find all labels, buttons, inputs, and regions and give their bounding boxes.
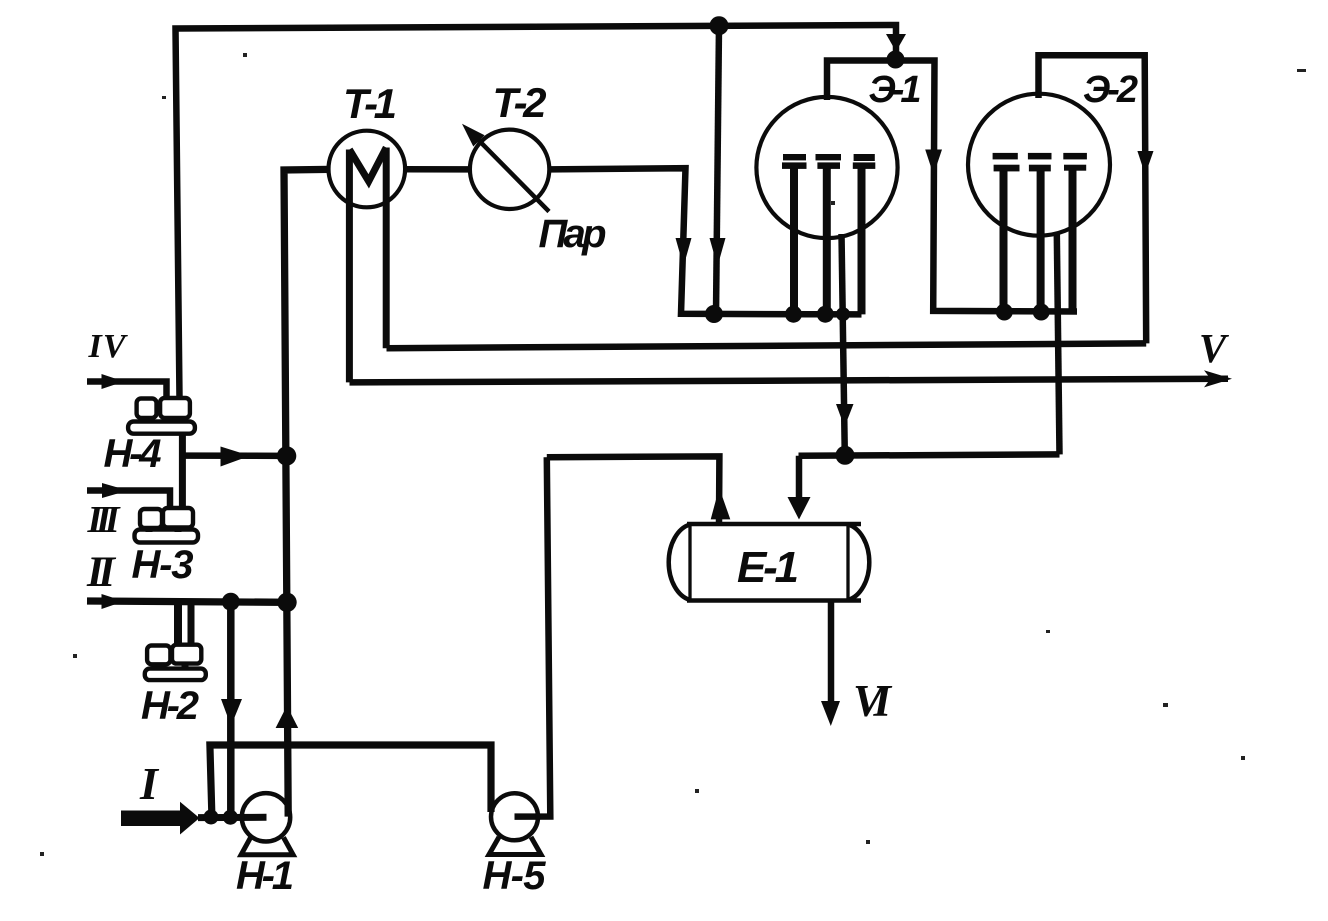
svg-text:Е-1: Е-1 [737,543,799,592]
svg-text:III: III [87,499,121,541]
svg-text:Т-2: Т-2 [493,79,547,126]
svg-text:IV: IV [88,328,128,365]
svg-text:Н-2: Н-2 [141,684,199,728]
svg-text:I: I [139,758,160,809]
svg-text:Н-1: Н-1 [236,854,294,898]
svg-text:Н-5: Н-5 [483,854,547,898]
svg-text:VI: VI [853,676,892,726]
svg-text:Э-2: Э-2 [1083,69,1138,111]
svg-text:II: II [86,549,116,596]
svg-text:Э-1: Э-1 [869,69,922,111]
svg-text:Т-1: Т-1 [343,80,397,127]
svg-text:Н-3: Н-3 [132,543,194,587]
svg-text:Н-4: Н-4 [104,432,162,476]
svg-text:V: V [1199,325,1230,371]
svg-text:Пар: Пар [539,212,607,256]
